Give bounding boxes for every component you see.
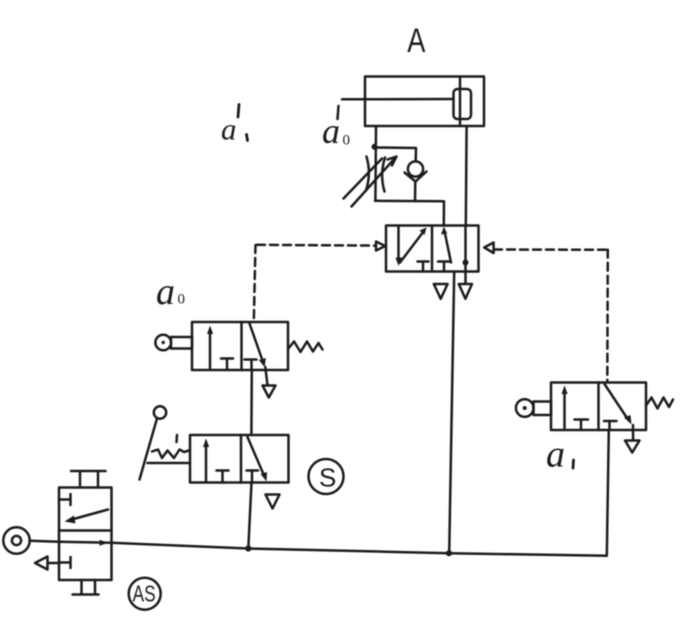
- svg-text:AS: AS: [133, 582, 156, 607]
- valve V1 (4/2 impulse valve) body: [386, 226, 479, 272]
- wire flow-control outlet to valve V1 port A: [375, 201, 444, 226]
- wire branch to check valve: [375, 148, 417, 162]
- valve S lever arm: [140, 419, 158, 480]
- label a'1 (prime tick): [238, 105, 239, 118]
- node junction dot bus-V1: [446, 550, 452, 556]
- label AS in circle: [129, 578, 161, 610]
- wire check valve down: [414, 182, 417, 201]
- cylinder A piston rod: [342, 98, 454, 101]
- valve a1 right square diagonal arrow: [605, 384, 629, 420]
- svg-text:0: 0: [178, 292, 186, 308]
- exhaust triangle a1 stub: [632, 425, 635, 441]
- svg-text:0: 0: [343, 133, 351, 149]
- cylinder A piston: [454, 89, 472, 119]
- wire source to AS valve: [30, 541, 59, 542]
- svg-text:a: a: [156, 271, 175, 313]
- wire cylinder right port to valve V1 port B: [465, 126, 468, 226]
- valve S left square blocked port T: [217, 471, 229, 483]
- exhaust triangle V1 left: [434, 284, 448, 299]
- compressed air source: [3, 527, 29, 553]
- valve S lever link line: [148, 462, 191, 465]
- valve AS bottom push button: [73, 580, 99, 595]
- exhaust triangle AS (points left): [35, 557, 48, 570]
- valve AS top push button: [71, 471, 106, 488]
- label a1 text: [546, 434, 565, 476]
- valve S lever circle: [154, 406, 166, 418]
- label a'1 subscript mark: [247, 135, 248, 141]
- valve S lever tick: [175, 435, 178, 442]
- exhaust triangle AS wire: [48, 562, 60, 565]
- throttle second slash: [344, 159, 383, 199]
- valve V1 divider: [431, 226, 434, 272]
- exhaust triangle S: [266, 495, 280, 509]
- check valve C1 circle: [408, 161, 423, 176]
- wire S valve bottom to bus: [248, 483, 251, 549]
- valve S right square port T: [247, 471, 259, 483]
- wire dashed pilot right horizontal: [494, 248, 609, 251]
- wire main supply bus: [112, 543, 607, 556]
- valve a0 return spring: [288, 342, 323, 353]
- valve S divider: [240, 435, 243, 483]
- exhaust triangle V1 right stub: [464, 272, 467, 284]
- valve a1 return spring: [646, 398, 673, 409]
- valve AS bottom square blocked port T: [59, 557, 71, 568]
- exhaust triangle a0: [263, 386, 276, 398]
- label a1 subscript mark: [572, 460, 575, 468]
- valve a1 divider: [597, 383, 600, 431]
- check valve seat: [405, 172, 427, 182]
- valve a0 divider: [240, 322, 243, 370]
- valve V1 right square through line with junction dot: [464, 226, 467, 272]
- valve a0 left square blocked port T: [221, 359, 233, 371]
- label a0 upper (tick): [338, 106, 339, 119]
- wire cylinder left port down: [374, 127, 377, 202]
- cylinder A body: [365, 77, 484, 127]
- valve a0 body: [192, 322, 288, 370]
- valve a0 roller stem: [171, 337, 192, 349]
- wire a1 bottom port riser to bus: [607, 430, 609, 556]
- valve a0 roller: [155, 335, 171, 351]
- valve AS bottom square through flow line with arrow: [59, 542, 112, 543]
- throttle valve (adjustable flow control) arcs: [366, 157, 369, 191]
- node junction dot at flow-control branch: [372, 144, 378, 150]
- valve a1 left square blocked port T: [575, 420, 589, 431]
- svg-text:a: a: [546, 434, 565, 476]
- svg-text:A: A: [407, 21, 426, 60]
- wire dashed pilot left vertical: [254, 245, 256, 322]
- valve V1 left square diagonal up-arrow: [400, 232, 424, 263]
- valve a0 right square port T: [245, 360, 257, 371]
- svg-text:a: a: [322, 111, 340, 151]
- valve a0 left square up-arrow: [209, 332, 212, 368]
- valve a1 roller stem: [534, 402, 552, 416]
- svg-text:S: S: [319, 463, 336, 493]
- valve V1 right pilot arrowhead: [484, 243, 493, 254]
- svg-text:a: a: [221, 112, 237, 147]
- node junction dot bus-S: [245, 545, 251, 551]
- label a0 (limit valve) text: [156, 271, 185, 313]
- valve S detent zigzag: [152, 450, 189, 459]
- wire a0 bottom to S valve top: [250, 370, 253, 435]
- valve AS top square diagonal arrow: [70, 510, 108, 521]
- valve AS top square blocked port T: [59, 494, 71, 505]
- label S in circle: [309, 459, 344, 494]
- wire V1 pressure port down to bus: [449, 272, 454, 553]
- wire dashed pilot right vertical: [606, 250, 609, 382]
- valve V1 left pilot arrowhead: [376, 242, 385, 251]
- valve V1 right square blocked port T: [438, 262, 450, 272]
- valve a0 right square diagonal arrow: [250, 324, 263, 361]
- valve AS body: [59, 488, 112, 581]
- valve a1 roller: [516, 399, 534, 417]
- valve V1 right square up-arrow: [445, 231, 452, 263]
- valve V1 left square down-arrow: [397, 227, 400, 260]
- valve S left square up-arrow: [205, 445, 208, 481]
- valve a1 body: [551, 383, 646, 431]
- exhaust triangle a1: [625, 441, 640, 453]
- valve S right square diagonal arrow: [248, 437, 265, 477]
- valve AS divider: [59, 529, 112, 532]
- valve a1 right square port T: [604, 421, 617, 430]
- label a0 upper text: [322, 111, 350, 151]
- wire dashed pilot left horizontal: [257, 244, 376, 247]
- valve a1 left square up-arrow: [563, 392, 566, 428]
- valve S body: [190, 435, 289, 483]
- exhaust triangle V1 right: [459, 284, 472, 299]
- throttle valve adjust arrow: [352, 158, 396, 207]
- valve V1 left square blocked port T: [418, 262, 429, 272]
